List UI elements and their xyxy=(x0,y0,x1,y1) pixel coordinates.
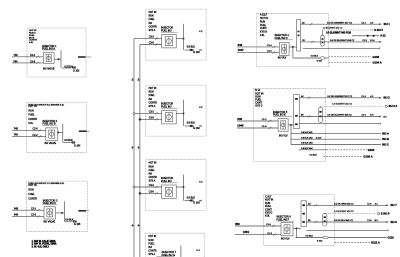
fuel injector K2 xyxy=(46,128,58,140)
splice S220 run xyxy=(296,236,395,243)
svg-text:G103: G103 xyxy=(373,55,380,59)
wire 745 to K2 pin 1 xyxy=(12,128,46,132)
R3 header text xyxy=(265,195,273,217)
fuel injector K1 xyxy=(43,53,54,64)
M4 header text xyxy=(148,236,157,256)
output row R2-2 wire 452 xyxy=(321,104,398,109)
svg-text:RUN: RUN xyxy=(149,92,154,94)
relay M2 label xyxy=(161,103,177,109)
svg-text:FUEL: FUEL xyxy=(149,170,156,172)
svg-text:C2-8: C2-8 xyxy=(33,129,39,131)
PCM block R3 enclosure xyxy=(264,195,335,246)
node R2 drop xyxy=(290,125,292,145)
svg-text:C3-2: C3-2 xyxy=(149,185,155,187)
svg-text:INJ: INJ xyxy=(149,99,152,101)
svg-text:S 220: S 220 xyxy=(317,241,323,243)
svg-text:0.5 DK BLU 845 C2: 0.5 DK BLU 845 C2 xyxy=(334,220,354,222)
relay R1K label xyxy=(275,34,293,40)
svg-text:744: 744 xyxy=(13,61,18,64)
output row R1-4 wire 818 xyxy=(300,40,381,43)
svg-text:INJ: INJ xyxy=(148,247,151,249)
svg-text:G111 A: G111 A xyxy=(371,240,380,244)
svg-text:CONTR: CONTR xyxy=(149,177,158,179)
svg-text:C1-4: C1-4 xyxy=(266,224,272,226)
svg-text:G 103: G 103 xyxy=(73,70,80,72)
fuel injector K3 xyxy=(44,207,56,219)
wire 1349 to R2K xyxy=(237,123,278,128)
svg-text:0.8 BLK: 0.8 BLK xyxy=(311,56,319,58)
svg-text:HOT IN: HOT IN xyxy=(28,184,36,187)
wire to M3 pin 1 xyxy=(133,185,162,188)
svg-text:348: 348 xyxy=(237,117,242,121)
svg-text:845: 845 xyxy=(14,207,19,210)
PCM block R2 enclosure xyxy=(253,88,325,161)
connector C2 of R1 xyxy=(321,35,324,46)
svg-text:INJ C: INJ C xyxy=(382,143,389,147)
relay R3K label xyxy=(277,216,295,222)
svg-text:450: 450 xyxy=(71,143,76,145)
ground lead G101 xyxy=(62,66,80,72)
svg-text:G105: G105 xyxy=(368,148,375,152)
svg-text:FUEL INJ: FUEL INJ xyxy=(161,180,172,183)
injector 2 module enclosure xyxy=(27,103,87,153)
svg-text:350: 350 xyxy=(235,222,240,226)
output row R2-8 dashed ground xyxy=(299,148,375,152)
svg-text:CONTR: CONTR xyxy=(28,118,37,121)
svg-text:0.5 DK GRN 844 C2: 0.5 DK GRN 844 C2 xyxy=(334,203,354,205)
dashed ground row R1-d2 xyxy=(329,61,382,65)
svg-text:745: 745 xyxy=(14,128,19,131)
svg-text:G104 A: G104 A xyxy=(373,61,382,65)
svg-text:743: 743 xyxy=(14,134,19,137)
wire to M2 pin 1 xyxy=(133,112,162,115)
svg-text:A 22: A 22 xyxy=(380,34,386,38)
svg-text:FUEL INJ: FUEL INJ xyxy=(161,105,172,108)
wire 843 to K3 pin 2 xyxy=(12,214,44,218)
svg-text:0.8 BLK 454: 0.8 BLK 454 xyxy=(301,148,313,150)
fuel injector M2 xyxy=(162,110,177,124)
svg-text:INJ 7: INJ 7 xyxy=(391,203,398,207)
svg-text:0.8 BLK: 0.8 BLK xyxy=(187,197,196,199)
svg-text:SYS C: SYS C xyxy=(255,104,262,107)
svg-text:843: 843 xyxy=(14,214,19,217)
wire M2 output xyxy=(176,112,184,114)
svg-text:1349: 1349 xyxy=(237,123,244,127)
svg-text:0.8 BLK 453: 0.8 BLK 453 xyxy=(301,143,313,145)
output row R2-7 ground 453 xyxy=(291,143,389,147)
injector module M4 enclosure xyxy=(146,233,205,257)
M3 header text xyxy=(149,163,158,183)
wire to M3 pin 2 xyxy=(139,192,162,195)
svg-text:4.8L: 4.8L xyxy=(260,34,265,37)
wire K1 output xyxy=(54,58,61,60)
bus wire 439 vertical xyxy=(139,45,141,257)
svg-text:RUN: RUN xyxy=(28,109,34,112)
svg-text:0.5 DK BLU/WHT 818 C2: 0.5 DK BLU/WHT 818 C2 xyxy=(330,40,355,42)
svg-text:HOT IN: HOT IN xyxy=(148,236,156,238)
wire 744 to K1 pin 2 xyxy=(12,61,43,64)
output row R1-3 wire 845 PCM xyxy=(326,31,386,37)
svg-text:RUN: RUN xyxy=(149,166,154,168)
svg-text:FUEL: FUEL xyxy=(28,114,35,117)
node M4 feed xyxy=(180,246,182,257)
svg-text:C2-2: C2-2 xyxy=(33,135,39,137)
ground lead M1 xyxy=(185,47,202,54)
relay K1 label xyxy=(42,45,57,50)
wire 348 to R2K xyxy=(237,117,278,122)
svg-text:C1-2: C1-2 xyxy=(267,233,273,235)
injector 3 module enclosure xyxy=(27,181,87,232)
wire 743 to K2 pin 2 xyxy=(12,134,46,138)
wire to M1 pin 1 xyxy=(134,37,162,40)
output row R1-2 wire 451 xyxy=(323,27,384,35)
svg-text:INJ 3 A: INJ 3 A xyxy=(389,104,398,108)
svg-text:S 210: S 210 xyxy=(316,137,322,139)
output row R3-2 wire 453 xyxy=(325,211,390,216)
svg-text:1347: 1347 xyxy=(238,48,245,52)
ground lead G102 xyxy=(63,140,81,147)
connector C103 reference xyxy=(78,56,91,58)
svg-text:C3-2: C3-2 xyxy=(149,37,155,39)
svg-text:HOT IN: HOT IN xyxy=(149,163,157,165)
svg-text:G 103: G 103 xyxy=(193,52,200,54)
svg-text:1351: 1351 xyxy=(243,230,250,234)
svg-text:G 103: G 103 xyxy=(193,128,200,130)
connector C104 reference xyxy=(79,130,90,132)
fuel injector M1 xyxy=(162,34,177,48)
output row R3-1 wire 844 xyxy=(306,203,397,208)
node M1 feed xyxy=(183,24,185,50)
R1 header text xyxy=(260,14,268,37)
relay R2K label xyxy=(273,111,292,117)
relay M3 label xyxy=(161,177,177,183)
svg-text:HOT IN: HOT IN xyxy=(149,88,157,90)
svg-text:5.3L: 5.3L xyxy=(28,122,33,125)
output row R2-4 xyxy=(299,123,380,125)
svg-text:346: 346 xyxy=(238,43,243,47)
connector strip C1 of R2 xyxy=(294,95,300,129)
svg-text:0.8 BLK 452: 0.8 BLK 452 xyxy=(301,137,313,139)
output row R3-4 xyxy=(306,229,388,231)
output row R2-3 wire 818 xyxy=(299,115,387,119)
wire R3K output xyxy=(293,227,301,229)
svg-text:1.0 BLK/WHT 452 C2: 1.0 BLK/WHT 452 C2 xyxy=(332,104,353,106)
svg-text:C1-8: C1-8 xyxy=(262,126,268,128)
svg-text:C2-3: C2-3 xyxy=(31,215,37,217)
svg-text:C3-2: C3-2 xyxy=(149,112,155,114)
svg-text:S INJ 8: S INJ 8 xyxy=(381,212,390,216)
svg-text:INJ VALVE: INJ VALVE xyxy=(44,221,56,224)
svg-text:SYS A: SYS A xyxy=(149,29,156,32)
relay K3 label xyxy=(43,200,58,205)
output row R2-1 wire 817 xyxy=(299,95,390,100)
ground lead M2 xyxy=(185,123,202,130)
injector module M3 enclosure xyxy=(146,160,206,211)
svg-text:746: 746 xyxy=(14,54,19,57)
fuel injector R1K xyxy=(279,43,289,56)
wire 1347 to R1K xyxy=(237,48,279,54)
R2 header text xyxy=(255,89,263,108)
node M3 feed xyxy=(183,175,185,201)
connector strip C1 of R3 xyxy=(301,201,306,227)
wire R1K output xyxy=(289,46,297,48)
M2 header text xyxy=(149,88,158,108)
svg-text:INJ A: INJ A xyxy=(382,132,389,136)
dashed ground row R1-d1 xyxy=(329,55,380,59)
svg-text:FUEL: FUEL xyxy=(149,95,156,97)
svg-text:0.8 BLK: 0.8 BLK xyxy=(187,47,196,49)
fuel injector R3K xyxy=(281,223,293,236)
M1 header text xyxy=(149,12,158,32)
svg-text:S INJ 5: S INJ 5 xyxy=(374,28,383,32)
wire to M2 pin 2 xyxy=(139,118,162,121)
svg-text:1.0 BLK/WHT 453 C2: 1.0 BLK/WHT 453 C2 xyxy=(334,211,355,213)
output row R2-6 ground 452 xyxy=(291,137,389,141)
connector C2 of R2 xyxy=(318,107,322,122)
svg-text:0.8 BLK 451: 0.8 BLK 451 xyxy=(301,132,313,134)
output row R2-5 ground 451 xyxy=(291,132,389,136)
wire 1351 to R3K xyxy=(235,230,281,236)
svg-text:SYS A: SYS A xyxy=(148,253,155,256)
wire to M1 pin 2 xyxy=(140,43,162,46)
svg-text:0.5 DK GRN/WHT 817 C2: 0.5 DK GRN/WHT 817 C2 xyxy=(327,22,353,24)
svg-text:CONTR: CONTR xyxy=(149,26,158,28)
svg-text:INJ: INJ xyxy=(149,173,152,175)
svg-text:0.8 BLK: 0.8 BLK xyxy=(187,123,196,125)
bus splice label S1 xyxy=(132,77,140,81)
svg-text:INJ: INJ xyxy=(149,23,152,25)
svg-text:INJ VALVE: INJ VALVE xyxy=(45,142,57,145)
wire 746 to K1 pin 1 xyxy=(12,54,43,58)
svg-text:3. W. 4.8L ONLY: 3. W. 4.8L ONLY xyxy=(32,245,50,248)
wire 346 to R1K xyxy=(237,43,279,48)
svg-text:INJ 1: INJ 1 xyxy=(384,22,391,26)
node B+ feed 2 xyxy=(62,124,64,143)
svg-text:1.0 BLK/WHT 451 C2: 1.0 BLK/WHT 451 C2 xyxy=(323,27,344,29)
svg-text:0.5 DK BLU/WHT 818 C2: 0.5 DK BLU/WHT 818 C2 xyxy=(327,115,352,117)
node R1 drop xyxy=(292,47,294,58)
svg-text:INJ B: INJ B xyxy=(382,137,389,141)
wire K3 output xyxy=(56,212,65,214)
svg-text:C1-4: C1-4 xyxy=(267,45,273,47)
injector module M2 enclosure xyxy=(146,85,206,136)
wire 845 to K3 pin 1 xyxy=(12,207,44,211)
svg-text:FUEL: FUEL xyxy=(149,19,156,21)
svg-text:SYS A: SYS A xyxy=(149,179,156,182)
wire K2 output xyxy=(57,132,63,134)
bus wire 339 vertical xyxy=(133,39,135,257)
svg-text:RUN: RUN xyxy=(28,189,34,192)
injector 1 module enclosure xyxy=(27,28,86,77)
svg-text:INJ VALVE: INJ VALVE xyxy=(43,67,55,70)
output row R1-5 xyxy=(303,47,380,49)
svg-text:C2-1: C2-1 xyxy=(31,208,37,210)
bus splice label S3 xyxy=(132,223,140,227)
svg-text:1. N/A W. CALIF EMIS.: 1. N/A W. CALIF EMIS. xyxy=(32,240,57,243)
svg-text:6.0L: 6.0L xyxy=(265,215,270,218)
L3 header text xyxy=(28,184,37,201)
svg-text:B 14: B 14 xyxy=(255,89,261,92)
svg-text:RUN: RUN xyxy=(148,240,153,242)
node B+ feed xyxy=(60,50,62,68)
svg-text:CONTR: CONTR xyxy=(149,102,158,104)
svg-text:G 104: G 104 xyxy=(74,145,81,147)
svg-text:CONTR: CONTR xyxy=(148,250,157,252)
svg-text:HOT IN: HOT IN xyxy=(28,105,36,108)
L1 header text xyxy=(29,30,37,44)
svg-text:INJ 2: INJ 2 xyxy=(384,96,391,100)
connector C2 of R3 xyxy=(323,213,327,226)
svg-text:G110: G110 xyxy=(388,236,395,240)
wire R2K output xyxy=(288,124,294,126)
svg-text:FUEL INJ D: FUEL INJ D xyxy=(275,37,288,40)
relay K2 label xyxy=(43,120,58,125)
svg-text:FUEL INJ: FUEL INJ xyxy=(161,29,172,32)
svg-text:INJ VLV: INJ VLV xyxy=(278,57,287,60)
svg-text:0.5 BLK/WHT 845 PCM: 0.5 BLK/WHT 845 PCM xyxy=(326,31,351,34)
svg-text:G 105: G 105 xyxy=(74,224,81,226)
svg-text:C1-2: C1-2 xyxy=(262,119,268,121)
svg-text:SYS A: SYS A xyxy=(149,105,156,108)
svg-text:C2-4: C2-4 xyxy=(30,55,36,57)
L2 header text xyxy=(28,105,37,125)
wire M3 output xyxy=(176,186,184,188)
svg-text:HOT IN: HOT IN xyxy=(149,12,157,14)
node B+ feed 3 xyxy=(64,201,66,222)
svg-text:0.8 BLK: 0.8 BLK xyxy=(306,236,314,238)
wire M1 output xyxy=(176,38,184,40)
svg-text:INJ VLV: INJ VLV xyxy=(281,238,290,241)
fuel injector R2K xyxy=(278,119,288,132)
PCM block R1 enclosure xyxy=(257,13,329,66)
node R3 drop xyxy=(296,228,298,237)
svg-text:S 110: S 110 xyxy=(317,61,323,63)
svg-text:C1-6: C1-6 xyxy=(267,51,273,53)
relay M4 label xyxy=(157,251,177,257)
ground lead M3 xyxy=(185,197,202,204)
node M2 feed xyxy=(183,100,185,126)
output row R1-1 wire 817 xyxy=(300,21,390,26)
svg-text:INJ VLV: INJ VLV xyxy=(279,135,288,138)
fuel injector M3 xyxy=(162,185,177,199)
svg-text:2. N/A W. FEDRL EMIS.: 2. N/A W. FEDRL EMIS. xyxy=(32,243,58,246)
svg-text:CONTR: CONTR xyxy=(28,198,37,201)
bus splice label S2 xyxy=(132,145,140,149)
svg-text:G106 A: G106 A xyxy=(363,154,372,158)
svg-text:C2-6: C2-6 xyxy=(30,62,36,64)
svg-text:C3-6: C3-6 xyxy=(149,192,155,194)
dashed ground row R3-d1 xyxy=(335,240,380,244)
splice S110 run xyxy=(293,56,329,63)
svg-text:FUEL: FUEL xyxy=(28,193,35,196)
wire 350 to R3K xyxy=(235,222,281,227)
svg-text:C3-6: C3-6 xyxy=(149,118,155,120)
relay M1 label xyxy=(161,27,177,33)
connector C105 reference xyxy=(78,210,89,212)
ground lead G103 xyxy=(65,220,81,227)
output row R3-3 wire 845 xyxy=(306,220,397,224)
svg-text:FUEL: FUEL xyxy=(148,243,155,245)
svg-text:C3-6: C3-6 xyxy=(149,43,155,45)
connector strip C1 of R1 xyxy=(297,19,301,51)
svg-text:0.8 BLK: 0.8 BLK xyxy=(310,154,318,156)
svg-text:G 103: G 103 xyxy=(193,203,200,205)
svg-text:INJ 8: INJ 8 xyxy=(391,220,398,224)
injector module M1 enclosure xyxy=(146,9,206,60)
svg-text:0.5 DK GRN/WHT 817 C2: 0.5 DK GRN/WHT 817 C2 xyxy=(327,96,353,98)
svg-text:RUN: RUN xyxy=(149,16,154,18)
